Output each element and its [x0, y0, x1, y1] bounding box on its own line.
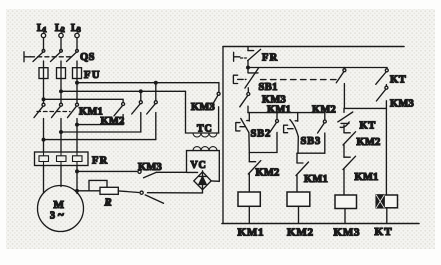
- contactor KM1 main contacts: [34, 103, 103, 117]
- node junction phase A feed: [42, 98, 45, 101]
- relay contact FR (NC) in control line: [234, 47, 279, 68]
- wire phase B feed to TC left: [61, 90, 186, 92]
- wire KM2 middle output crossing to phase B column: [61, 113, 141, 133]
- svg-text:FR: FR: [92, 156, 108, 167]
- node L2 terminal: [55, 23, 65, 38]
- svg-text:KT: KT: [375, 226, 393, 238]
- wire control top rail: [223, 46, 404, 48]
- node junction phase B feed: [60, 90, 63, 93]
- svg-text:KM1: KM1: [79, 107, 103, 118]
- svg-text:KM3: KM3: [390, 99, 414, 110]
- node junction braking tap lower on phase C: [76, 190, 79, 193]
- interlock contact KM2 (NC) in KM3 branch: [343, 132, 380, 158]
- wire drop to KM2 right contact: [155, 83, 157, 101]
- svg-text:KM2: KM2: [357, 137, 381, 148]
- svg-text:KM1: KM1: [304, 174, 328, 185]
- contactor KM3 contact (NO) below KT: [376, 85, 414, 110]
- motor M 3~: [38, 186, 84, 232]
- pushbutton SB1 (NC stop): [233, 68, 277, 94]
- svg-text:KM1: KM1: [238, 227, 265, 239]
- wire KM2 right output crossing to phase A column: [44, 113, 156, 140]
- wire SB1 mechanical link (dashed): [261, 79, 337, 81]
- wire phase C to KM3 brake contact: [77, 170, 137, 172]
- wire L3 down to QS: [76, 38, 78, 50]
- svg-text:KM2: KM2: [256, 168, 280, 179]
- interlock contact KM2 (NC) in KM1 branch: [248, 153, 279, 193]
- contactor KM2 self-holding contact: [318, 113, 327, 154]
- interlock contact KM1 (NC) in KM3 branch: [343, 156, 378, 195]
- pushbutton SB2 (NC): [236, 113, 271, 153]
- wire R to KM3 lower contact: [118, 191, 139, 193]
- svg-text:~: ~: [58, 209, 64, 221]
- node L3 terminal: [71, 23, 81, 38]
- svg-text:3: 3: [77, 25, 81, 34]
- svg-text:KM2: KM2: [312, 105, 336, 116]
- wire FR outputs to motor: [44, 166, 78, 194]
- transformer TC: [186, 124, 219, 151]
- switch QS: [24, 49, 95, 63]
- wire resistor bypass loop: [89, 180, 107, 190]
- coil KM3: [334, 195, 361, 239]
- svg-text:QS: QS: [80, 52, 95, 63]
- svg-text:KT: KT: [390, 75, 406, 86]
- svg-text:2: 2: [61, 25, 65, 34]
- node junction on phase C: [76, 123, 79, 126]
- wire phase C feed to KM3/TC: [77, 82, 219, 84]
- wire sub-bus to braking branches: [248, 67, 387, 69]
- coil KT (time relay): [375, 108, 398, 238]
- node L1 terminal: [37, 23, 47, 38]
- node junction KM2 middle top: [140, 90, 143, 93]
- svg-text:VC: VC: [191, 160, 207, 171]
- wire phase A feed to KM2 left: [44, 99, 124, 102]
- coil KM2: [287, 192, 314, 239]
- svg-text:SB3: SB3: [301, 136, 322, 147]
- wire control left vertical: [222, 47, 224, 224]
- node junction KM2 right top: [155, 81, 158, 84]
- resistor R: [100, 187, 118, 208]
- wire control mid-bus: [248, 112, 325, 114]
- wire control bottom rail: [222, 223, 419, 225]
- svg-text:KM2: KM2: [287, 227, 314, 239]
- interlock contact KM1 (NC) in KM2 branch: [296, 153, 328, 192]
- wire QS to fuses: [44, 61, 78, 68]
- svg-text:KM1: KM1: [355, 172, 379, 183]
- svg-text:R: R: [104, 198, 112, 209]
- wire braking branches join: [344, 107, 386, 109]
- wire TC left lead: [185, 91, 187, 133]
- wire phase C to resistor R: [77, 190, 100, 192]
- wire SB3/KM2 rejoin: [297, 152, 325, 154]
- contactor KM3 self-holding contact: [240, 93, 286, 113]
- wire phase columns below fuses: [44, 79, 78, 104]
- node junction on phase A: [42, 138, 45, 141]
- contactor KM3 contact at transformer: [191, 83, 220, 133]
- wire SB2/KM1 rejoin: [249, 152, 277, 154]
- contactor KM3 braking contacts: [138, 162, 203, 203]
- svg-text:KM1: KM1: [267, 105, 291, 116]
- svg-text:FU: FU: [84, 70, 101, 81]
- contactor KM2 main contacts: [101, 101, 158, 127]
- relay contact KT (NC delayed): [338, 108, 376, 132]
- pushbutton SB3 (NC): [284, 113, 321, 154]
- node junction phase C top feed: [76, 81, 79, 84]
- svg-text:SB1: SB1: [259, 82, 278, 93]
- pushbutton SB1 NO contact (linked): [336, 68, 346, 109]
- relay contact KT (NO): [376, 68, 407, 86]
- node junction sub-bus tap: [247, 66, 250, 69]
- node junction on phase B: [60, 131, 63, 134]
- svg-text:FR: FR: [262, 53, 278, 64]
- svg-text:SB2: SB2: [251, 129, 272, 140]
- wire L1 down to QS: [43, 38, 45, 50]
- svg-text:KM3: KM3: [334, 227, 361, 239]
- svg-text:3: 3: [50, 211, 55, 222]
- fuse FU (three cartridges): [39, 68, 101, 81]
- contactor KM1 self-holding contact: [270, 113, 279, 153]
- wire KM1 outputs down to FR: [44, 119, 78, 153]
- node junction braking tap upper on phase C: [76, 170, 79, 173]
- wire KM2 left output crossing to phase C column: [77, 115, 123, 125]
- svg-text:KT: KT: [360, 121, 376, 132]
- wire drop to KM2 middle contact: [140, 91, 142, 100]
- rectifier VC: [187, 151, 220, 193]
- svg-text:KM2: KM2: [101, 116, 125, 127]
- coil KM1: [238, 192, 265, 239]
- wire L2 down to QS: [60, 38, 62, 50]
- thermal relay FR heaters: [35, 152, 109, 167]
